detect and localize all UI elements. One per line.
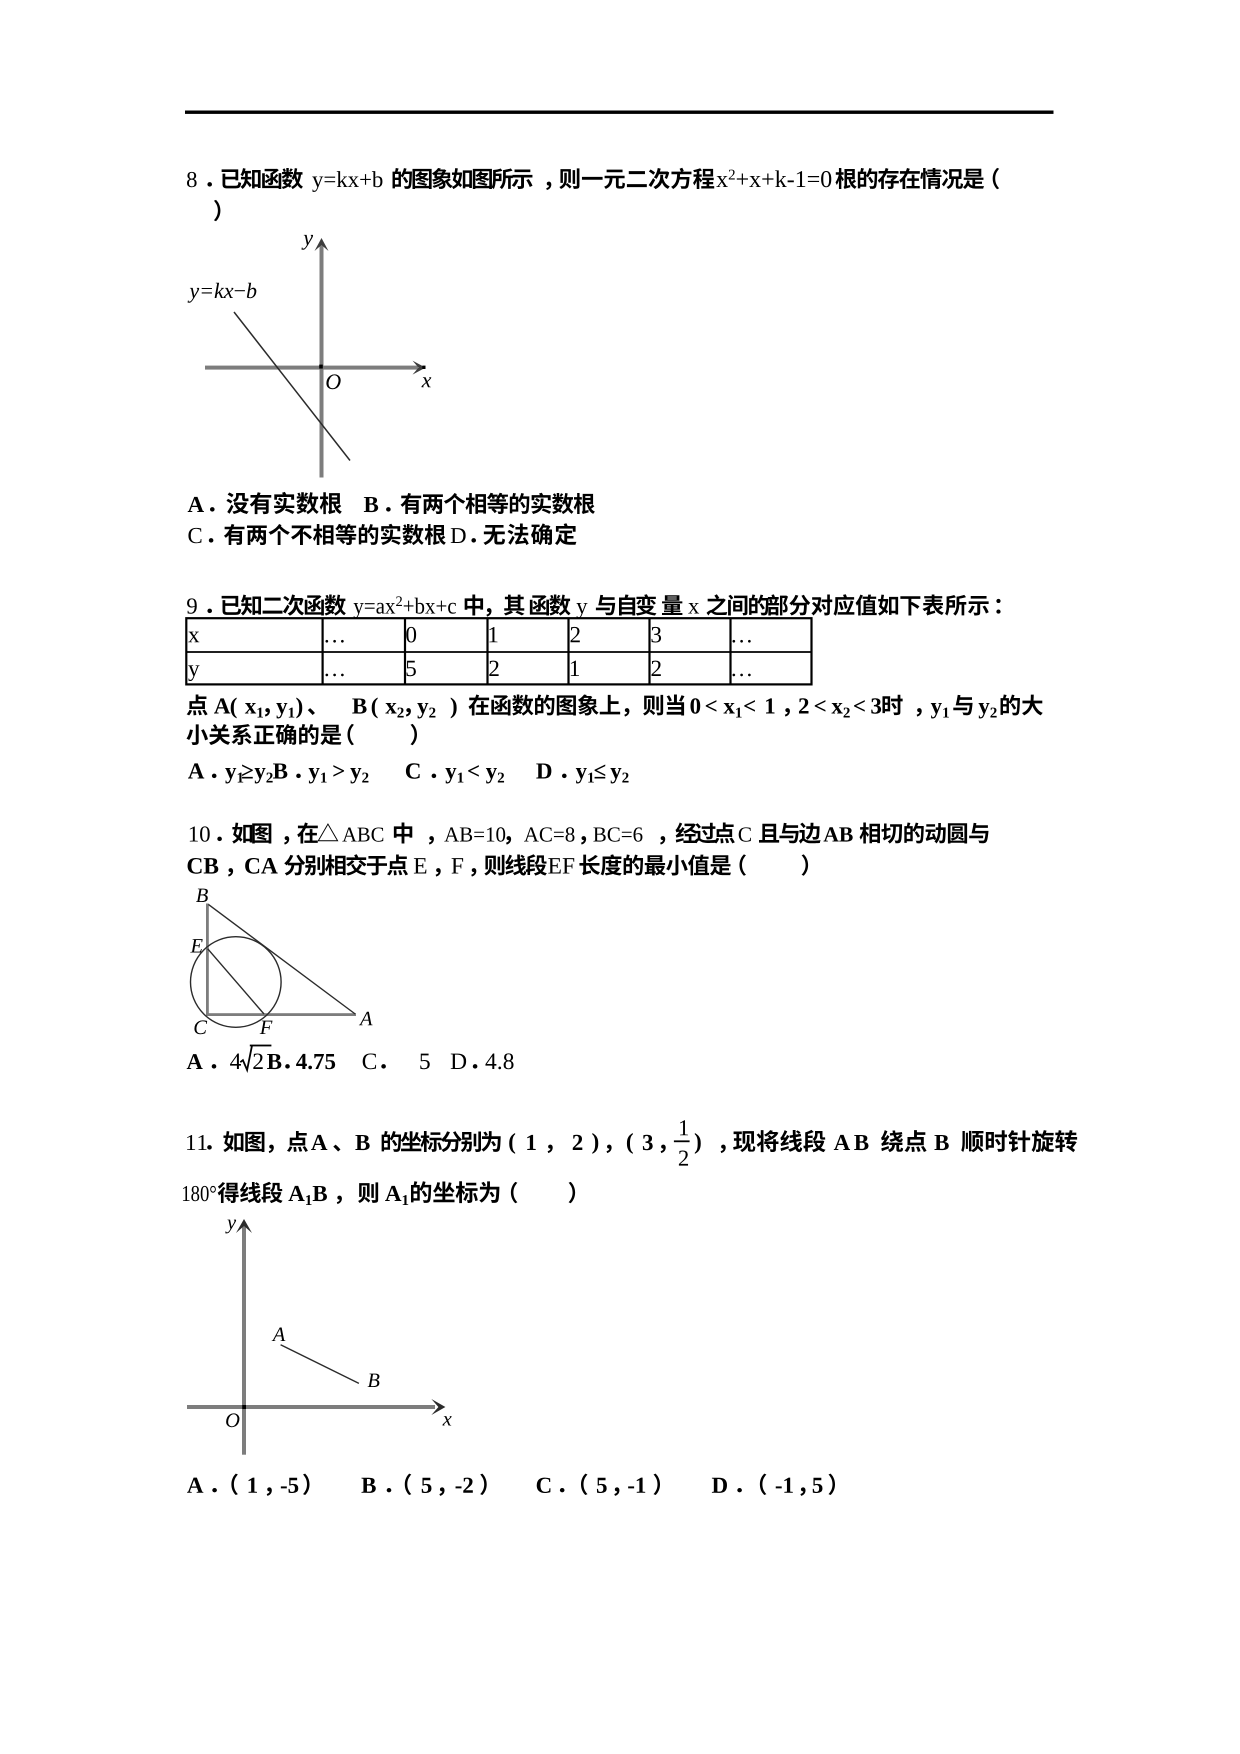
Q8 statement line 1 (187, 172, 197, 187)
Q8 fig: label y=kx-b (188, 288, 200, 303)
Q11 statement line 1 (187, 1135, 195, 1150)
Q11 fig: y-axis (242, 1224, 246, 1455)
Q10 fig: hypotenuse BA (208, 904, 355, 1014)
Q10 fig: label B (196, 889, 208, 902)
Q9 point text line 2 (186, 724, 207, 745)
Q9 table row y (188, 665, 199, 681)
Q10 fig: label A (359, 1012, 373, 1026)
Q8 fig: label x (axis) (421, 377, 431, 387)
Q8 fig: x-axis (205, 366, 418, 370)
Q11 fig: segment AB (281, 1345, 359, 1384)
header rule (185, 111, 1054, 114)
Q10 fig: label C (194, 1020, 207, 1034)
Q10 fig: circle (191, 937, 282, 1028)
Q11 fig: y-axis arrowhead (236, 1219, 252, 1233)
Q9 point text line 1 (187, 695, 208, 716)
Q11 statement line 2 (183, 1186, 190, 1201)
Q8 fig: label y (axis) (301, 235, 313, 250)
Q10 statement line 1 (190, 826, 198, 841)
Q10 fig: side CA (horizontal) (206, 1013, 356, 1016)
Q8 fig: label O (origin) (326, 374, 340, 389)
Q11 fig: x-axis (187, 1405, 435, 1409)
Q8 options line C D (188, 528, 201, 543)
Q11 fig: x-axis arrowhead (431, 1399, 445, 1415)
Q9 table borders (186, 618, 811, 684)
Q11 fig: label x (axis) (442, 1416, 451, 1425)
Q9 statement (187, 598, 197, 613)
Q11 fig: label A (272, 1327, 286, 1341)
Q10 fig: label E (190, 939, 202, 952)
Q10 statement line 2 (188, 858, 202, 874)
Q10 fig: chord EF (208, 949, 264, 1014)
Q8 fig: y-axis (320, 243, 324, 478)
Q8 fig: x-axis tip dot (422, 366, 425, 369)
Q11 fraction 1/2 (680, 1120, 688, 1135)
Q11 options (187, 1478, 203, 1493)
Q11 fig: label y (axis) (225, 1220, 236, 1234)
Q8 fig: origin dot (319, 365, 323, 369)
Q8 statement line 2 (214, 200, 221, 221)
Q10 fig: side CB (vertical) (206, 904, 209, 1016)
Q11 fig: label B (368, 1374, 380, 1387)
Q10 fig: label F (260, 1021, 273, 1034)
Q8 fig: x-axis arrowhead (413, 361, 426, 375)
Q8 fig: line y=kx-b (234, 312, 350, 461)
Q8 fig: y-axis arrowhead (315, 238, 329, 251)
Q8 options line A B (188, 497, 204, 512)
Q9 table row x (188, 632, 199, 643)
Q11 fig: origin dot (242, 1405, 246, 1409)
Q10 options (187, 1054, 203, 1069)
Q9 options (188, 763, 204, 778)
Q11 fig: label O (origin) (226, 1413, 239, 1427)
